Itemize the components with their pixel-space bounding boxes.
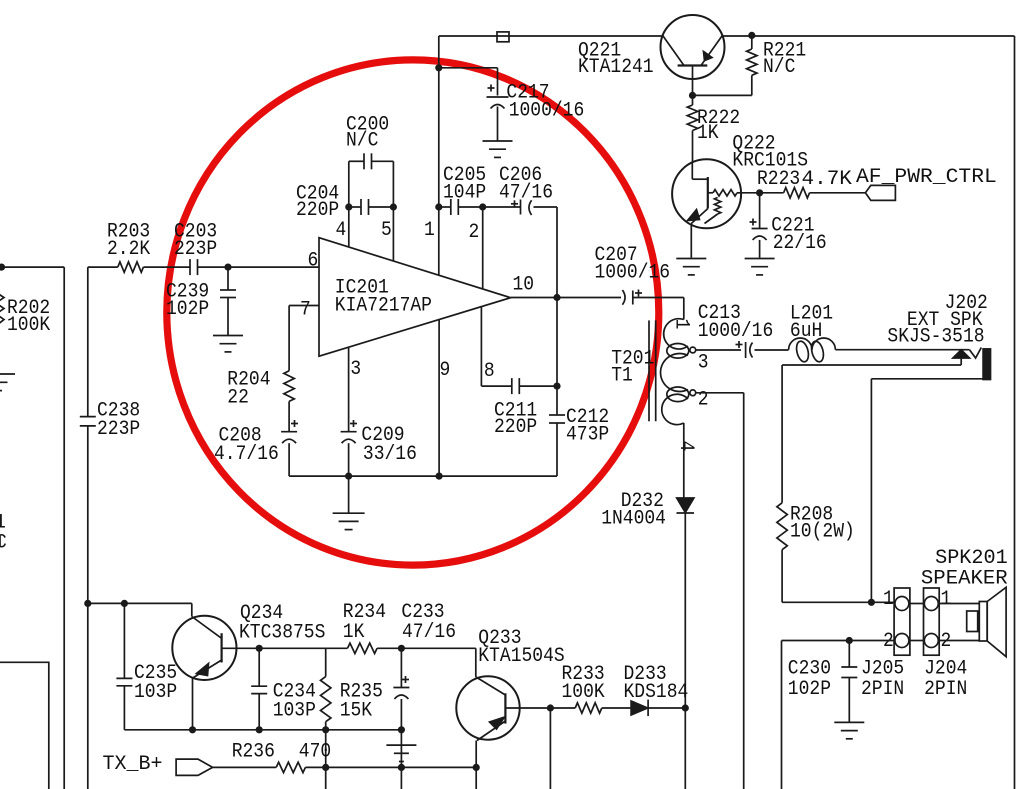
svg-text:33/16: 33/16: [363, 443, 417, 466]
wire R204-C208: [288, 401, 290, 431]
wire J205 pin1: [871, 601, 894, 603]
svg-text:8: 8: [484, 360, 495, 383]
transistor Q222 KRC101S: [672, 159, 741, 228]
wire C234 leads: [258, 648, 260, 730]
capacitor C239: [220, 290, 236, 298]
resistor R233: [575, 703, 602, 713]
capacitor C212: [549, 415, 565, 423]
svg-text:N/C: N/C: [763, 56, 795, 79]
resistor R223: [784, 188, 810, 198]
ground C239: [213, 336, 243, 352]
label C221: [771, 214, 826, 255]
pin label 8: [484, 360, 495, 383]
svg-text:104P: 104P: [443, 182, 486, 205]
capacitor C221: [750, 219, 768, 241]
transistor Q234 KTC3875S: [172, 603, 236, 729]
wire bottom rail: [289, 475, 557, 477]
svg-text:473P: 473P: [566, 424, 609, 447]
resistor R208: [777, 503, 787, 550]
capacitor C209: [341, 420, 357, 443]
svg-text:1: 1: [941, 588, 952, 611]
label T201: [611, 347, 654, 387]
wire R235 leads: [325, 648, 327, 730]
label Q234: [239, 602, 325, 644]
resistor R221: [747, 49, 757, 75]
svg-text:R223: R223: [757, 168, 800, 191]
node R235 rail junction: [322, 726, 329, 733]
label R234: [343, 601, 386, 644]
capacitor C233: [393, 676, 409, 699]
svg-text:22: 22: [227, 387, 249, 410]
label C207: [595, 244, 671, 285]
capacitor C200: [364, 153, 372, 169]
label Q221: [578, 40, 654, 79]
wire R221 top: [751, 35, 753, 49]
label R235: [340, 680, 383, 722]
svg-text:1000/16: 1000/16: [698, 320, 774, 343]
wire J202 sleeve lead: [871, 379, 983, 603]
wire L201 branch down: [781, 365, 783, 503]
wire C209 lead: [348, 443, 350, 476]
label C208: [214, 425, 279, 466]
label J204: [924, 658, 967, 701]
label D232: [601, 490, 666, 530]
wire R222 leads: [692, 95, 694, 162]
wire base drop: [549, 708, 551, 789]
wire R223-flag: [810, 192, 866, 194]
svg-text:1N4004: 1N4004: [601, 507, 666, 530]
wire Q222 collector: [741, 192, 784, 194]
wire R235 drop: [325, 730, 327, 768]
pin label 4: [336, 219, 347, 242]
capacitor C235: [116, 678, 132, 685]
wire C211 line: [481, 385, 557, 387]
node output junction: [553, 294, 560, 301]
svg-text:1: 1: [883, 588, 894, 611]
svg-text:10(2W): 10(2W): [790, 520, 855, 543]
wire C239 lead: [227, 267, 229, 335]
wire base-R233: [550, 707, 575, 709]
wire drops to edge: [326, 767, 477, 789]
svg-text:1000/16: 1000/16: [509, 100, 585, 123]
pin label 9: [440, 359, 451, 382]
svg-text:1K: 1K: [697, 122, 719, 145]
ground fragment left: [0, 374, 15, 391]
pin label 10: [513, 274, 535, 297]
transformer T201 core: [649, 320, 656, 421]
label C239: [166, 281, 209, 322]
wire left bus B: [87, 267, 89, 789]
op-amp IC201 KIA7217AP: [319, 238, 511, 357]
node pin2 junction: [479, 203, 486, 210]
ground C230: [834, 722, 864, 738]
wire T201 pin4: [683, 423, 685, 498]
svg-text:10: 10: [513, 274, 535, 297]
svg-text:470: 470: [299, 740, 331, 763]
label Q222: [732, 132, 808, 172]
svg-text:SKJS-3518: SKJS-3518: [887, 326, 984, 349]
svg-text:R236: R236: [232, 740, 275, 763]
wire left input: [0, 266, 64, 268]
wire C217 branch: [439, 68, 498, 96]
transformer T201 winding: [661, 319, 689, 425]
capacitor C217: [487, 85, 509, 141]
wire Q222 emitter: [690, 224, 692, 258]
svg-text:102P: 102P: [788, 678, 831, 701]
svg-text:22/16: 22/16: [773, 232, 827, 255]
wire C213-L201: [755, 349, 789, 351]
svg-text:103P: 103P: [273, 700, 316, 723]
label C234: [273, 680, 316, 722]
svg-text:KTA1504S: KTA1504S: [478, 645, 564, 668]
connector J202 tip contact: [970, 348, 982, 359]
label C204: [296, 183, 339, 223]
label C233: [401, 601, 456, 644]
wire C233 drop: [400, 730, 402, 768]
svg-text:KIA7217AP: KIA7217AP: [335, 295, 432, 318]
label R203: [107, 221, 150, 262]
svg-text:SPEAKER: SPEAKER: [921, 568, 1008, 591]
svg-text:2PIN: 2PIN: [924, 678, 967, 701]
wire IC201 pin4: [348, 207, 350, 247]
svg-text:2: 2: [883, 630, 894, 653]
svg-text:2.2K: 2.2K: [107, 238, 150, 261]
pin label J204-2: [941, 630, 952, 653]
capacitor C204: [361, 199, 369, 215]
label AF_PWR_CTRL: [856, 166, 997, 189]
wire right loop vertical: [556, 207, 558, 476]
label C206: [499, 164, 553, 205]
node D232 line junction: [682, 704, 689, 711]
resistor R204: [284, 371, 294, 402]
resistor R236: [276, 762, 305, 772]
wire C235 bottom lead: [123, 686, 125, 730]
label R221: [763, 40, 806, 79]
wire R233-D233: [602, 707, 631, 709]
net flag TX_B+: [176, 759, 213, 775]
pin label T201-3: [698, 351, 709, 374]
wire pin7: [289, 306, 319, 371]
wire tap3: [696, 349, 741, 351]
svg-text:2PIN: 2PIN: [861, 678, 904, 701]
wire C233 top lead: [400, 648, 402, 687]
svg-text:100K: 100K: [562, 681, 605, 704]
ground C221: [745, 259, 775, 275]
label R204: [227, 368, 270, 409]
wire left bus A: [63, 267, 65, 789]
node Q234 emitter junction: [189, 726, 196, 733]
transistor Q221 KTA1241: [661, 15, 725, 79]
pin label J204-1: [941, 588, 952, 611]
wire TX_B+ rail: [213, 766, 477, 768]
wire C221 bottom: [759, 240, 761, 258]
label C238: [97, 400, 140, 442]
label C235: [134, 662, 177, 704]
node pin5 junction: [390, 203, 397, 210]
diode D232 1N4004: [677, 498, 695, 513]
wire IC201 pin8: [480, 307, 482, 386]
node C230 junction: [846, 637, 853, 644]
red highlight circle around IC201 stage: [167, 60, 659, 565]
diode D233 KDS184: [631, 700, 648, 717]
ground IC201 main: [333, 513, 365, 529]
wire bottom-left box: [0, 662, 49, 789]
svg-text:103P: 103P: [134, 681, 177, 704]
capacitor C234: [251, 686, 267, 693]
node pin1 top junction: [435, 203, 442, 210]
terminal T201 pin2: [690, 390, 696, 396]
svg-text:3: 3: [698, 351, 709, 374]
capacitor C203: [190, 259, 198, 275]
capacitor C238: [80, 417, 96, 426]
connector J202 switch arrow: [953, 350, 970, 358]
svg-text:47/16: 47/16: [402, 621, 456, 644]
svg-text:4.7K: 4.7K: [802, 168, 852, 191]
node left bus junction: [84, 600, 91, 607]
label IC201: [335, 277, 432, 318]
wire pin10 output: [511, 298, 684, 320]
node R221 top junction: [748, 32, 755, 39]
svg-text:100K: 100K: [7, 314, 50, 337]
label C213: [698, 302, 774, 343]
node C234 junction: [256, 645, 263, 652]
label C230: [788, 658, 831, 701]
label SPK201: [921, 547, 1008, 591]
node base junction: [547, 704, 554, 711]
resistor R234: [348, 643, 378, 653]
wire C233 bottom lead: [400, 699, 402, 730]
label Q233: [478, 627, 564, 668]
wire right border: [1014, 36, 1016, 789]
svg-text:6uH: 6uH: [790, 320, 822, 343]
svg-text:1000/16: 1000/16: [595, 262, 671, 285]
svg-text:102P: 102P: [166, 298, 209, 321]
node C239 junction: [224, 264, 231, 271]
wire C208 lead: [288, 443, 290, 476]
pin label 3: [350, 358, 361, 381]
wire R208 bottom: [782, 550, 871, 603]
svg-text:4: 4: [674, 441, 697, 452]
wire IC201 pin3: [348, 347, 350, 432]
wire main ground stub: [348, 476, 350, 513]
svg-text:2: 2: [941, 630, 952, 653]
ground C217: [483, 141, 513, 157]
svg-text:1: 1: [670, 319, 693, 330]
wire J205-J204 links: [910, 604, 924, 641]
terminal T201 pin3: [690, 347, 696, 353]
connector J202 sleeve: [983, 349, 990, 380]
net flag AF_PWR_CTRL: [865, 185, 895, 200]
svg-text:220P: 220P: [494, 416, 537, 439]
inductor L201: [789, 338, 836, 363]
resistor R202 fragment: [0, 293, 4, 325]
svg-text:7: 7: [300, 299, 311, 322]
wire IC201 pin1 vertical: [438, 36, 440, 275]
pin label 1: [424, 219, 435, 242]
label R223: [757, 168, 852, 191]
label R236: [232, 740, 331, 763]
svg-text:4.7/16: 4.7/16: [214, 443, 279, 466]
node R208/J202 junction: [868, 599, 875, 606]
capacitor C207: [622, 290, 642, 305]
svg-text:9: 9: [440, 359, 451, 382]
ground Q222 emitter: [676, 259, 706, 275]
svg-text:2: 2: [469, 221, 480, 244]
node C235 junction: [121, 600, 128, 607]
label C209: [361, 424, 417, 466]
wire J202 switch: [782, 358, 961, 365]
node left edge: [0, 264, 5, 271]
wire Q234 feed: [88, 602, 192, 604]
wire IC201 pin2: [482, 207, 484, 289]
svg-text:15K: 15K: [340, 700, 372, 723]
svg-text:1: 1: [424, 219, 435, 242]
svg-text:47/16: 47/16: [499, 182, 553, 205]
svg-text:5: 5: [381, 219, 392, 242]
label R233: [562, 663, 605, 704]
svg-text:1K: 1K: [343, 621, 365, 644]
node pin4 junction: [345, 203, 352, 210]
resistor R235: [321, 677, 331, 722]
label J205: [861, 658, 904, 701]
capacitor C206: [511, 200, 532, 216]
node pin9 rail junction: [436, 473, 443, 480]
pin label T201-1: [670, 319, 693, 330]
pin label 7: [300, 299, 311, 322]
node pin3 rail junction: [345, 473, 352, 480]
label R202: [7, 297, 50, 337]
wire D232 cathode: [684, 513, 686, 789]
pin label 6: [308, 250, 319, 273]
transistor Q233 KTA1504S: [456, 676, 519, 767]
wire C204 line: [349, 206, 394, 208]
label C212: [566, 406, 609, 447]
wire IC201 pin9: [438, 320, 440, 477]
label fragment C: [0, 531, 7, 554]
svg-text:KTC3875S: KTC3875S: [239, 622, 325, 645]
svg-text:KTA1241: KTA1241: [578, 56, 654, 79]
label C205: [443, 164, 486, 205]
wire L201-J202: [835, 349, 969, 351]
node Q233 emitter junction: [473, 764, 480, 771]
svg-text:220P: 220P: [296, 199, 339, 222]
wire C206 line: [483, 206, 557, 208]
svg-text:3: 3: [350, 358, 361, 381]
node C233 drop junction: [398, 764, 405, 771]
wire Q233 base: [505, 707, 550, 709]
label D233: [624, 663, 689, 704]
svg-text:C: C: [0, 531, 7, 554]
label fragment 1: [0, 511, 6, 534]
wire top rail: [439, 35, 1015, 37]
node R223 junction: [756, 189, 763, 196]
node C233 rail junction: [398, 726, 405, 733]
svg-text:223P: 223P: [97, 418, 140, 441]
svg-text:TX_B+: TX_B+: [103, 753, 163, 776]
capacitor C213: [736, 341, 753, 358]
svg-text:N/C: N/C: [346, 130, 378, 153]
pin label T201-4: [674, 441, 697, 452]
svg-text:223P: 223P: [174, 238, 217, 261]
node Q221 base junction: [689, 92, 696, 99]
capacitor C205: [451, 199, 459, 215]
connector J204 2PIN: [924, 588, 940, 655]
capacitor C230: [841, 641, 857, 722]
pin label T201-2: [698, 389, 709, 412]
pin label 2: [469, 221, 480, 244]
label C217: [506, 82, 584, 123]
resistor R203: [118, 262, 144, 272]
ground TX rail: [386, 745, 416, 761]
wire base net: [259, 647, 401, 649]
label TX_B+: [103, 753, 163, 776]
label C200: [346, 113, 389, 152]
svg-text:KDS184: KDS184: [624, 681, 689, 704]
wire pin6 input: [88, 266, 319, 268]
wire J205 pin2: [782, 641, 895, 789]
wire J204-speaker: [939, 604, 979, 641]
wire C200 loop: [349, 161, 394, 207]
label R208: [790, 503, 855, 543]
svg-text:T1: T1: [611, 365, 633, 388]
speaker SPK201: [967, 587, 1006, 656]
node C233 junction: [398, 645, 405, 652]
wire C235 top lead: [123, 603, 125, 678]
svg-text:4: 4: [336, 219, 347, 242]
svg-text:6: 6: [308, 250, 319, 273]
wire D233 out: [648, 707, 685, 709]
wire collector net: [401, 648, 475, 677]
wire C205 line: [439, 206, 483, 208]
label R222: [697, 107, 740, 145]
wire Q221 base: [692, 66, 694, 96]
test point square on top rail: [497, 32, 509, 42]
connector J205 2PIN: [894, 588, 910, 655]
node pin1/C217 junction: [435, 64, 442, 71]
resistor R222: [687, 105, 697, 130]
pin label 5: [381, 219, 392, 242]
pin label J205-2: [883, 630, 894, 653]
node R235 drop junction: [322, 764, 329, 771]
label C203: [174, 221, 217, 262]
wire Q234 base: [222, 647, 260, 649]
wire tap2: [696, 393, 744, 789]
wire IC201 pin5: [392, 207, 394, 261]
label L201: [790, 302, 833, 343]
wire emitter rail: [124, 729, 401, 731]
wire C221 lead: [759, 193, 761, 229]
capacitor C211: [512, 378, 520, 394]
node C211-C212 junction: [553, 383, 560, 390]
node C234 rail junction: [256, 726, 263, 733]
pin label J205-1: [883, 588, 894, 611]
svg-text:AF_PWR_CTRL: AF_PWR_CTRL: [856, 166, 997, 189]
label J202: [887, 292, 987, 349]
capacitor C208: [281, 420, 298, 443]
wire R221 bottom: [693, 75, 752, 95]
label C211: [494, 399, 537, 439]
